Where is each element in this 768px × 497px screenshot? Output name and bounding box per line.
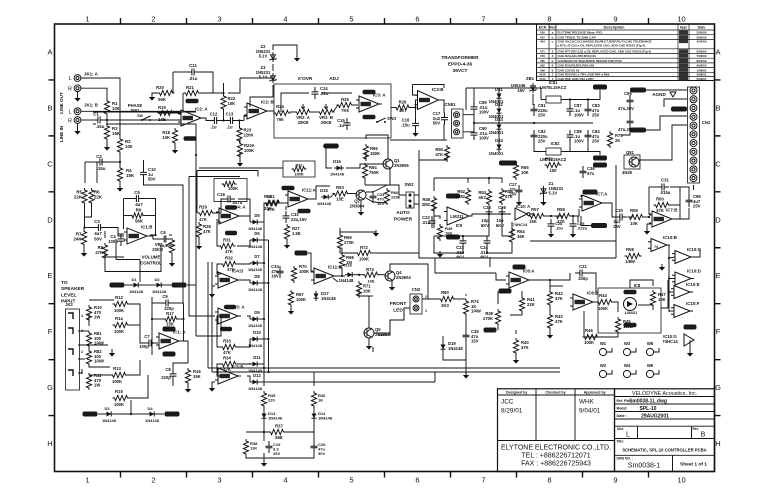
capacitor C5 (132, 190, 144, 207)
lm311 wires (434, 177, 578, 258)
svg-text:R31: R31 (223, 238, 231, 243)
svg-text:050: 050 (540, 31, 545, 35)
capacitor C82 (531, 129, 548, 144)
svg-text:6: 6 (415, 476, 419, 485)
svg-text:R79: R79 (545, 157, 553, 162)
capacitor C85 (618, 91, 634, 111)
svg-text:4: 4 (283, 476, 287, 485)
comparator wires (584, 280, 668, 337)
op-amp IC10:E (671, 282, 700, 299)
resistor R70 (291, 264, 309, 283)
diode D19 (441, 341, 464, 352)
wire JK1 outputs (81, 78, 120, 139)
ground R43 (547, 328, 553, 339)
resistor R43 (547, 313, 563, 330)
svg-text:SCHEMATIC, SPL-10 CONTROLLER P: SCHEMATIC, SPL-10 CONTROLLER PCBA (622, 448, 706, 453)
svg-text:IC82: IC82 (551, 141, 561, 146)
svg-text:CHANGED R4 SEQUENCE DESIGN FOR: CHANGED R4 SEQUENCE DESIGN FOR PCB (558, 59, 623, 63)
svg-text:47u,25V: 47u,25V (618, 127, 634, 132)
svg-text:270K: 270K (483, 316, 493, 321)
svg-text:099: 099 (540, 68, 545, 72)
svg-text:2K: 2K (615, 138, 620, 143)
svg-text:9: 9 (613, 476, 617, 485)
svg-text:2/05/00: 2/05/00 (696, 31, 706, 35)
capacitor C3 (94, 219, 106, 242)
svg-text:C11: C11 (189, 63, 197, 68)
ground Z1 (516, 196, 547, 206)
resistor R23A (237, 142, 254, 159)
diode D7 (248, 254, 263, 272)
svg-text:2M2: 2M2 (457, 194, 466, 199)
resistor R9 (130, 208, 145, 224)
svg-text:150K: 150K (370, 151, 380, 156)
capacitor C90 (471, 126, 489, 141)
svg-text:D: D (715, 215, 721, 224)
op-amp IC6:A (499, 265, 536, 294)
resistor R40 (513, 338, 529, 355)
resistor R28 (196, 222, 211, 239)
svg-text:100K: 100K (112, 379, 122, 384)
svg-text:JK1: A: JK1: A (84, 72, 99, 77)
svg-text:4K7: 4K7 (478, 195, 486, 200)
capacitor C17 (433, 111, 448, 126)
svg-text:CHG R20,R3,R21,R50,C63: CHG R20,R3,R21,R50,C63 (558, 64, 595, 68)
svg-text:C3: C3 (94, 219, 100, 224)
resistor R55 (513, 163, 529, 180)
svg-text:R20: R20 (156, 85, 164, 90)
capacitor C16 (401, 118, 419, 137)
op-amp IC5:B (215, 365, 243, 385)
svg-text:1N4148: 1N4148 (317, 201, 332, 206)
resistor R65 (363, 144, 380, 161)
svg-text:Checked by: Checked by (545, 390, 565, 394)
diode D3 (83, 406, 117, 423)
jumper W6 (646, 363, 659, 378)
svg-text:IC6:A: IC6:A (523, 269, 535, 274)
svg-text:10K: 10K (630, 221, 638, 226)
svg-text:Date :: Date : (617, 414, 628, 418)
svg-text:R26: R26 (399, 100, 407, 105)
svg-text:100V: 100V (574, 139, 584, 144)
svg-text:IC10:E: IC10:E (686, 282, 700, 287)
svg-text:085: 085 (540, 59, 545, 63)
svg-text:100V: 100V (479, 110, 489, 115)
svg-text:1N4148: 1N4148 (268, 416, 283, 421)
svg-text:LINE IN: LINE IN (59, 125, 64, 142)
resistor R19 (158, 105, 175, 122)
svg-text:5.1V: 5.1V (549, 191, 558, 196)
svg-text:74HC14: 74HC14 (513, 222, 528, 227)
cn1 wires (622, 90, 694, 190)
diode D84 (489, 138, 504, 156)
svg-text:D5: D5 (254, 213, 260, 218)
svg-text:JK1: B: JK1: B (84, 103, 98, 108)
transistor Q4 (385, 270, 411, 281)
op-amp IC3:A (356, 90, 386, 120)
op-amp IC10:B (648, 235, 677, 252)
resistor R52 feedback box (283, 161, 315, 177)
svg-text:100K: 100K (114, 402, 124, 407)
svg-text:H: H (47, 439, 52, 448)
transistor Q1 (383, 158, 409, 169)
net label osc2 (591, 223, 607, 228)
wire input node (81, 111, 196, 191)
resistor R39 (483, 309, 501, 326)
svg-text:4: 4 (81, 314, 83, 318)
svg-text:8: 8 (547, 15, 551, 24)
svg-text:Sheet 1 of 1: Sheet 1 of 1 (680, 462, 707, 468)
svg-text:AUTO: AUTO (396, 210, 410, 216)
svg-text:100: 100 (550, 168, 558, 173)
svg-text:R13: R13 (113, 366, 121, 371)
svg-text:R46: R46 (585, 328, 593, 333)
svg-text:JCC: JCC (501, 399, 514, 406)
svg-text:IC8: IC8 (634, 283, 641, 288)
resistor R22 (221, 94, 236, 111)
capacitor C21 (575, 264, 588, 281)
svg-text:.15u: .15u (401, 122, 410, 127)
svg-text:CHG R69, ADD C96 a R67: CHG R69, ADD C96 a R67 (558, 77, 595, 81)
svg-text:C: C (47, 159, 53, 168)
resistor R58 (555, 207, 572, 224)
svg-text:1N4001: 1N4001 (489, 151, 504, 156)
svg-text:1N4148: 1N4148 (330, 172, 345, 177)
svg-text:Model:: Model: (617, 407, 628, 411)
resistor R72 (356, 245, 373, 262)
svg-text:100K: 100K (299, 269, 309, 274)
ground R67 (288, 305, 294, 315)
svg-text:D16: D16 (333, 159, 341, 164)
svg-text:.022u: .022u (577, 226, 588, 231)
wire auto power rails (116, 150, 616, 372)
svg-text:15K: 15K (126, 173, 135, 178)
svg-text:Title:: Title: (617, 440, 625, 444)
svg-text:F: F (552, 59, 554, 63)
svg-text:10K: 10K (363, 288, 371, 293)
svg-text:25V: 25V (693, 204, 701, 209)
resistor R50 (435, 145, 449, 162)
wire xovr out (390, 100, 447, 140)
svg-text:C7: C7 (144, 334, 150, 339)
svg-text:100K: 100K (598, 306, 608, 311)
svg-text:IC5:B: IC5:B (232, 365, 243, 370)
diode D11 (248, 355, 263, 373)
connector JK1:B line in (59, 103, 98, 143)
zener Z1 (540, 181, 564, 196)
svg-text:IC6:B: IC6:B (587, 291, 598, 296)
svg-text:.1u: .1u (226, 125, 232, 130)
net +15V (593, 85, 607, 90)
svg-text:4: 4 (283, 15, 287, 24)
svg-text:2N3906: 2N3906 (394, 163, 409, 168)
svg-text:100V: 100V (479, 136, 489, 141)
svg-text:W3: W3 (624, 341, 631, 346)
capacitor C1 (93, 112, 105, 130)
svg-text:270K: 270K (344, 240, 354, 245)
svg-text:L: L (68, 110, 71, 116)
svg-text:a R75,.47,C23 a C8, REPLACED C: a R75,.47,C23 a C8, REPLACED CHG, ADD CH… (558, 44, 645, 48)
diode D83 (489, 117, 504, 135)
svg-text:56K: 56K (135, 219, 144, 224)
capacitor C30 (613, 208, 627, 229)
svg-text:ZB1: ZB1 (526, 76, 535, 81)
op-amp IC5:A (215, 305, 245, 332)
resistor R33 (221, 339, 238, 356)
svg-text:4/24/00: 4/24/00 (696, 40, 706, 44)
svg-text:Rev: Rev (693, 427, 699, 431)
diode D10 (248, 330, 263, 348)
svg-text:1N4148: 1N4148 (248, 267, 263, 272)
capacitor C7 (139, 334, 156, 349)
svg-text:50V: 50V (94, 237, 102, 242)
svg-text:C25: C25 (483, 205, 491, 210)
diode D6 (248, 231, 263, 249)
net OSC label (499, 161, 517, 166)
svg-text:C6: C6 (160, 230, 166, 235)
op-amp IC10:C (672, 247, 702, 264)
svg-text:A: A (47, 47, 52, 56)
svg-text:9/26/00: 9/26/00 (696, 64, 706, 68)
svg-text:.1u: .1u (210, 125, 216, 130)
resistor R18 (162, 128, 177, 145)
resistor R74 (463, 299, 480, 316)
svg-text:R58: R58 (626, 247, 634, 252)
svg-text:10: 10 (677, 15, 685, 24)
ground R23A (237, 157, 243, 167)
resistor R69 (337, 233, 354, 250)
svg-text:1N4148: 1N4148 (129, 289, 144, 294)
svg-text:LINE OUT: LINE OUT (59, 92, 64, 114)
resistor R80 (439, 290, 456, 308)
svg-text:8/29/01: 8/29/01 (501, 408, 523, 415)
svg-text:FAX : +886226725943: FAX : +886226725943 (521, 461, 591, 468)
ic7b wires (643, 187, 689, 235)
wire q5 cn2 (363, 296, 404, 352)
net label b (671, 107, 687, 112)
jumper W4 (623, 363, 636, 378)
svg-text:C13: C13 (226, 112, 234, 117)
svg-text:W2: W2 (600, 363, 607, 368)
label AGND (652, 92, 676, 97)
svg-text:D: D (47, 215, 53, 224)
resistor R1 (104, 99, 119, 116)
resistor R67 (288, 290, 306, 307)
svg-text:071: 071 (540, 49, 545, 53)
svg-text:1N4148: 1N4148 (318, 416, 333, 421)
svg-text:R57: R57 (531, 207, 539, 212)
svg-text:1N4148: 1N4148 (321, 296, 336, 301)
svg-text:1N4148: 1N4148 (145, 418, 160, 423)
switch SW3 (376, 116, 397, 123)
ground C35 (463, 342, 469, 379)
svg-text:47u: 47u (587, 171, 595, 176)
potentiometer VR1 volume (105, 235, 175, 272)
svg-text:47K: 47K (555, 296, 563, 301)
svg-text:CN2: CN2 (412, 287, 421, 292)
wire IC1B fb (124, 199, 157, 237)
svg-text:CONTROL: CONTROL (140, 260, 162, 265)
svg-text:16V: 16V (271, 274, 279, 279)
svg-text:R17: R17 (166, 311, 174, 316)
svg-text:36VCT: 36VCT (453, 68, 468, 74)
svg-text:Description: Description (604, 26, 626, 30)
svg-text:R60: R60 (656, 197, 664, 202)
svg-text:D4: D4 (147, 406, 153, 411)
resistor R32 (221, 256, 238, 273)
svg-text:6KV: 6KV (481, 223, 489, 228)
svg-text:10K: 10K (228, 101, 236, 106)
svg-text:JK2: JK2 (65, 302, 73, 307)
diode D12 (248, 373, 263, 391)
svg-text:LED: LED (393, 308, 403, 314)
svg-text:IC2: B: IC2: B (261, 100, 274, 105)
ic7a (579, 190, 608, 212)
diode D8 (248, 274, 263, 292)
svg-text:WHK: WHK (579, 399, 595, 406)
capacitor C11 (187, 63, 199, 81)
svg-text:.01u: .01u (189, 76, 198, 81)
svg-text:100K: 100K (114, 329, 124, 334)
svg-text:FRONT: FRONT (390, 301, 407, 307)
capacitor C12 (210, 112, 222, 130)
resistor R53t (333, 185, 350, 202)
svg-text:R58: R58 (557, 207, 565, 212)
resistor R13 (111, 366, 128, 384)
jumper W1 (599, 341, 612, 356)
svg-text:D1: D1 (131, 277, 137, 282)
capacitor C29 (570, 219, 588, 238)
svg-text:9/04/01: 9/04/01 (579, 408, 601, 415)
diode D16 (330, 159, 345, 177)
wire C3 node (83, 203, 124, 234)
resistor R37 (269, 424, 286, 441)
svg-text:ELYTONE ELECTRONIC CO.,LTD.: ELYTONE ELECTRONIC CO.,LTD. (501, 445, 611, 452)
wire r35 chain (246, 406, 314, 467)
svg-text:Designed by: Designed by (506, 390, 527, 394)
svg-text:R73: R73 (366, 267, 374, 272)
wire Z3 to IC2B (250, 85, 273, 107)
svg-text:1W: 1W (94, 383, 100, 388)
svg-text:R: R (68, 87, 72, 93)
svg-text:1/8W: 1/8W (625, 259, 635, 264)
resistor R20 (156, 85, 174, 102)
svg-text:5.1V: 5.1V (259, 54, 268, 59)
wire z2 z3 rail (228, 45, 273, 93)
svg-text:1: 1 (85, 15, 89, 24)
svg-text:064: 064 (540, 40, 545, 44)
svg-text:R12: R12 (115, 295, 123, 300)
wire mid vertical bus (195, 124, 221, 336)
svg-text:5/03/01: 5/03/01 (696, 77, 706, 81)
resistor R44 (597, 293, 614, 311)
resistor R3 (104, 124, 120, 141)
svg-text:4u7: 4u7 (94, 231, 102, 236)
svg-text:1: 1 (425, 309, 427, 313)
resistor R52b (457, 188, 471, 205)
svg-text:47K: 47K (225, 249, 233, 254)
svg-text:15V: 15V (471, 339, 479, 344)
ground R20 (149, 93, 159, 101)
resistor R17 (164, 311, 179, 327)
inverter wires right (659, 245, 700, 312)
resistor R27 (284, 224, 300, 241)
diode D17 (314, 291, 337, 301)
resistor R31 (219, 238, 236, 255)
svg-text:5.1V: 5.1V (259, 75, 268, 80)
svg-text:1.5E: 1.5E (292, 231, 301, 236)
svg-text:2N3904: 2N3904 (350, 203, 365, 208)
svg-text:R80: R80 (441, 290, 449, 295)
svg-text:4K7: 4K7 (399, 108, 407, 113)
svg-text:A: A (715, 47, 720, 56)
svg-text:5: 5 (349, 15, 353, 24)
svg-text:56E: 56E (275, 435, 283, 440)
ic11b wires (308, 248, 385, 328)
diode D81 (489, 87, 504, 104)
svg-text:100K: 100K (244, 148, 254, 153)
svg-text:330p: 330p (578, 276, 588, 281)
resistor R11 (86, 373, 102, 390)
capacitor C36 (580, 166, 596, 178)
svg-text:750K: 750K (369, 170, 379, 175)
capacitor C9 (161, 294, 174, 311)
capacitor C89 (471, 100, 489, 115)
svg-text:2: 2 (81, 350, 83, 354)
capacitor C24 (480, 236, 491, 260)
resistor R51 (264, 194, 281, 211)
resistor R14 (113, 316, 130, 334)
svg-text:ECN: ECN (539, 26, 547, 30)
svg-text:ADJ: ADJ (329, 76, 339, 82)
svg-text:25V: 25V (613, 224, 621, 229)
svg-text:47K: 47K (95, 250, 103, 255)
net -15V (593, 156, 607, 161)
svg-text:E: E (47, 271, 52, 280)
net label a (630, 88, 646, 93)
capacitor C23 (456, 236, 467, 260)
svg-text:R24: R24 (276, 104, 284, 109)
svg-text:3: 3 (217, 15, 221, 24)
svg-text:IC9: IC9 (456, 223, 463, 228)
svg-text:D10: D10 (253, 330, 261, 335)
d3 d4 wires (98, 400, 164, 415)
diode D4 (145, 406, 180, 423)
capacitor C83 (585, 103, 601, 118)
connector JK1:A line out (59, 72, 99, 114)
svg-text:0113: 0113 (539, 77, 546, 81)
net label ic10g (684, 325, 697, 330)
svg-text:2N3904: 2N3904 (375, 332, 390, 337)
svg-text:50V: 50V (148, 177, 156, 182)
svg-text:C12: C12 (210, 112, 218, 117)
resistor R53b (478, 189, 491, 206)
resistor R78 (607, 131, 623, 148)
svg-text:Rev: Rev (549, 26, 555, 30)
op-amp IC4:D (215, 269, 243, 289)
svg-text:R21: R21 (186, 85, 194, 90)
svg-text:47u,25V: 47u,25V (618, 106, 634, 111)
svg-text:Size: Size (617, 427, 624, 431)
rect chain wires (213, 199, 316, 382)
svg-text:.015u: .015u (660, 190, 671, 195)
resistor R36 (311, 391, 326, 408)
resistor R68 (339, 253, 354, 270)
capacitor C6 (159, 230, 173, 248)
svg-text:15K: 15K (193, 374, 201, 379)
speaker wires (78, 300, 188, 398)
phase switch SW1 (128, 103, 155, 121)
capacitor C27 (509, 182, 522, 197)
